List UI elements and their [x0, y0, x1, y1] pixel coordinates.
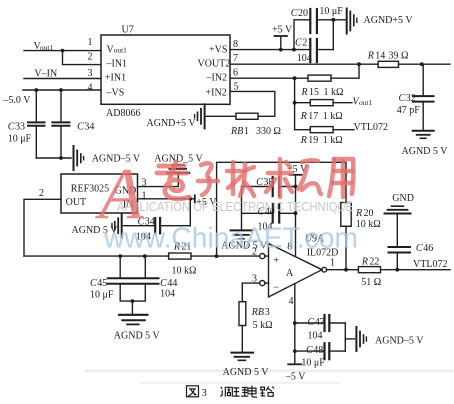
svg-text:GND: GND — [392, 193, 414, 204]
wire C20 branch — [294, 20, 310, 50]
ground AGND+5V top right — [347, 9, 357, 34]
svg-text:19: 19 — [308, 135, 318, 146]
red char 5 — [266, 159, 292, 197]
capacitor C20 — [310, 9, 345, 33]
wire R15 to VOUT2 — [331, 64, 359, 78]
wire R19 left — [295, 129, 311, 131]
watermark red calligraphy — [95, 153, 353, 234]
svg-text:AD8066: AD8066 — [106, 108, 140, 119]
ground AGND 5V U9A — [231, 230, 253, 238]
svg-text:R: R — [301, 87, 308, 98]
svg-text:47: 47 — [315, 317, 325, 328]
svg-text:4: 4 — [289, 296, 294, 307]
svg-text:AGND_5 V: AGND_5 V — [154, 153, 203, 164]
wire -5.0V to pin4 — [23, 89, 101, 91]
svg-text:+VS: +VS — [209, 45, 227, 56]
red char 3 — [198, 163, 218, 195]
svg-text:C: C — [399, 93, 406, 104]
node C45 tap — [118, 254, 122, 258]
wire pin8 supply — [295, 187, 297, 256]
svg-text:RB: RB — [251, 307, 264, 318]
svg-text:1 kΩ: 1 kΩ — [324, 87, 344, 98]
svg-text:R: R — [361, 256, 368, 267]
svg-text:10 μF: 10 μF — [301, 357, 325, 368]
red char 1 — [95, 153, 144, 234]
svg-text:32: 32 — [406, 93, 416, 104]
ground AGND_5V above — [167, 165, 189, 173]
svg-text:44: 44 — [167, 278, 177, 289]
resistor R17 — [310, 100, 333, 106]
svg-text:5 kΩ: 5 kΩ — [253, 320, 273, 331]
svg-text:–IN1: –IN1 — [106, 59, 128, 70]
capacitor C38 — [242, 177, 296, 196]
svg-text:51 Ω: 51 Ω — [361, 277, 381, 288]
svg-text:AGND+5 V: AGND+5 V — [147, 118, 197, 129]
node C42 — [294, 211, 298, 215]
node R20 join — [344, 268, 348, 272]
node C38 — [294, 185, 298, 189]
node C48 — [293, 349, 297, 353]
wire RB3 to ground — [241, 326, 243, 353]
node R17 — [293, 101, 297, 105]
caption char li — [233, 387, 248, 396]
ground AGND 5V below RB3 — [231, 353, 253, 361]
wire pin6 -IN2 — [230, 77, 308, 79]
capacitor C33 — [28, 90, 45, 158]
svg-text:AGND 5 V: AGND 5 V — [223, 367, 270, 378]
red char 7 — [329, 159, 353, 197]
resistor R22 — [358, 267, 380, 273]
capacitor C47 — [295, 315, 346, 331]
capacitor C42 — [242, 204, 296, 223]
caption char tu — [187, 386, 199, 397]
svg-text:8: 8 — [233, 39, 238, 50]
svg-text:104: 104 — [160, 288, 175, 299]
resistor R14 — [378, 61, 398, 67]
svg-text:3: 3 — [202, 388, 207, 399]
svg-text:330 Ω: 330 Ω — [256, 126, 281, 137]
svg-text:–IN2: –IN2 — [206, 73, 228, 84]
caption char diao — [220, 387, 232, 397]
svg-text:AGND+5 V: AGND+5 V — [364, 15, 414, 26]
svg-text:OUT: OUT — [66, 197, 87, 208]
svg-text:VTL072: VTL072 — [413, 259, 447, 270]
+5V tap U9A — [290, 175, 302, 187]
svg-text:−: − — [273, 283, 279, 294]
svg-text:Vout1: Vout1 — [107, 45, 128, 56]
wire pin3 to RB3 — [242, 283, 259, 302]
svg-text:C: C — [306, 345, 313, 356]
svg-text:15: 15 — [309, 87, 319, 98]
wire Vout1 to pin1 — [24, 50, 101, 52]
wire pin2 loop — [63, 51, 102, 65]
watermark grey text — [117, 200, 353, 214]
svg-text:U7: U7 — [122, 25, 134, 36]
svg-text:22: 22 — [369, 256, 379, 267]
caption figure number — [202, 388, 207, 399]
op-amp U7 box — [101, 35, 230, 104]
wire branch to R17 R19 — [294, 78, 296, 130]
watermark blue www.ChinaAET.com — [103, 223, 358, 255]
svg-text:3: 3 — [88, 68, 93, 79]
node C44 tap — [143, 254, 147, 258]
wire OUT long to R21 — [24, 255, 169, 257]
node C46 tap — [395, 268, 399, 272]
op-amp U9A triangle — [269, 244, 323, 298]
svg-text:1 kΩ: 1 kΩ — [323, 111, 343, 122]
svg-text:10 kΩ: 10 kΩ — [172, 265, 197, 276]
svg-text:10 μF: 10 μF — [319, 6, 343, 17]
capacitor C46 — [389, 214, 411, 270]
faint scan band — [85, 370, 454, 373]
svg-text:V–IN: V–IN — [34, 69, 57, 80]
ground AGND-5V left — [74, 146, 84, 170]
svg-text:2: 2 — [39, 188, 44, 199]
svg-text:6: 6 — [233, 67, 238, 78]
ground AGND-5V right — [356, 327, 366, 351]
wire output — [327, 269, 359, 271]
node C32 tap — [420, 62, 424, 66]
svg-text:R: R — [367, 51, 374, 62]
wire R17 left — [295, 102, 311, 104]
resistor RB3 — [239, 302, 246, 326]
node — [59, 156, 63, 160]
svg-text:39 Ω: 39 Ω — [389, 51, 409, 62]
+5V supply tap top — [275, 36, 288, 50]
node — [131, 299, 135, 303]
svg-text:104: 104 — [308, 331, 323, 342]
svg-text:10 kΩ: 10 kΩ — [356, 219, 381, 230]
wire R17 to Vout1 — [333, 102, 352, 104]
capacitor C44 — [132, 256, 158, 301]
svg-text:C: C — [8, 121, 15, 132]
red char 6 — [298, 160, 321, 194]
svg-text:out1: out1 — [359, 98, 372, 107]
svg-text:+IN1: +IN1 — [105, 73, 126, 84]
svg-text:RB: RB — [230, 126, 243, 137]
svg-text:17: 17 — [308, 111, 318, 122]
-5V bar — [288, 363, 301, 365]
capacitor C32 — [413, 64, 434, 130]
node — [279, 48, 283, 52]
capacitor C34 — [52, 90, 69, 158]
red char 2 — [157, 162, 189, 199]
svg-text:5: 5 — [234, 82, 239, 93]
svg-text:2: 2 — [88, 52, 93, 63]
svg-text:20: 20 — [298, 8, 308, 19]
svg-text:out1: out1 — [40, 43, 53, 52]
svg-text:4: 4 — [88, 82, 93, 93]
wire pin7 VOUT2 — [230, 63, 378, 65]
ground AGND 5V REF — [112, 214, 122, 238]
ground GND top — [385, 206, 411, 213]
svg-text:1: 1 — [330, 257, 335, 268]
svg-text:C: C — [77, 121, 84, 132]
wire to AGND-5V — [36, 157, 71, 159]
caption char lu — [260, 387, 274, 397]
svg-text:C: C — [90, 278, 97, 289]
svg-text:1: 1 — [88, 37, 93, 48]
wire pin8 +VS — [230, 49, 310, 51]
svg-text:33: 33 — [15, 121, 25, 132]
node R15 feedback — [357, 62, 361, 66]
pin2 terminal — [260, 254, 269, 259]
wire R20 down — [345, 226, 347, 269]
resistor RB1 — [236, 113, 258, 119]
svg-text:–5 V: –5 V — [285, 371, 306, 382]
svg-text:A: A — [286, 268, 294, 279]
node junction pin1/pin2 — [61, 49, 65, 53]
wire pin5 +IN2 — [230, 91, 275, 116]
svg-text:C: C — [308, 317, 315, 328]
svg-text:20: 20 — [364, 208, 374, 219]
svg-text:3: 3 — [265, 307, 270, 318]
wire IN pin1 — [138, 198, 191, 200]
svg-text:R: R — [300, 135, 307, 146]
svg-text:C: C — [291, 8, 298, 19]
svg-text:+5 V: +5 V — [272, 25, 293, 36]
svg-text:C: C — [295, 38, 302, 49]
svg-text:10 μF: 10 μF — [8, 134, 32, 145]
svg-text:AGND–5 V: AGND–5 V — [375, 335, 424, 346]
svg-text:R: R — [300, 111, 307, 122]
wire caps to AGND-5V — [345, 323, 354, 351]
svg-text:VTL072: VTL072 — [354, 122, 388, 133]
resistor R21 — [169, 253, 191, 259]
svg-text:AGND 5 V: AGND 5 V — [114, 331, 161, 342]
wire IN decoupling — [161, 199, 191, 226]
red char 4 — [227, 162, 254, 196]
wire R19 to VTL072 — [333, 129, 354, 131]
wire R14 out — [399, 63, 451, 65]
ground AGND 5V below C45 — [119, 301, 147, 324]
capacitor C34 REF — [124, 218, 161, 233]
node feedback tap — [215, 254, 219, 258]
wire OUT pin2 — [24, 199, 61, 256]
wire RB1 to ground — [206, 115, 236, 117]
caption 图 3 调理电路 — [187, 386, 275, 398]
node C20 branch — [292, 48, 296, 52]
svg-text:AGND 5 V: AGND 5 V — [402, 146, 449, 157]
svg-text:+IN2: +IN2 — [206, 87, 227, 98]
output terminal pin1 — [322, 267, 327, 272]
node C33 tap — [34, 88, 38, 92]
svg-text:104: 104 — [297, 53, 312, 64]
+5V tap REF — [190, 195, 195, 202]
svg-text:–VS: –VS — [106, 87, 125, 98]
svg-text:VOUT2: VOUT2 — [198, 59, 231, 70]
wire GND pin3 — [138, 174, 179, 187]
resistor R15 — [308, 75, 331, 81]
capacitor C21 — [310, 39, 333, 62]
svg-text:APPLICATION OF ELECTRONIC TECH: APPLICATION OF ELECTRONIC TECHNIQUE — [117, 200, 353, 214]
wire pin4 -5V — [294, 284, 296, 365]
svg-text:7: 7 — [233, 53, 238, 64]
caption char dian — [248, 386, 257, 398]
svg-text:+: + — [273, 256, 279, 267]
svg-text:46: 46 — [423, 243, 433, 254]
capacitor C45 — [108, 256, 133, 301]
pin3 terminal — [260, 281, 269, 286]
svg-text:10 μF: 10 μF — [90, 290, 114, 301]
node pin6 branch — [293, 76, 297, 80]
svg-text:48: 48 — [313, 345, 323, 356]
svg-text:21: 21 — [302, 38, 312, 49]
node C47 — [293, 321, 297, 325]
node — [331, 18, 335, 22]
svg-text:45: 45 — [97, 278, 107, 289]
wire R21 to pin2 — [191, 255, 259, 257]
svg-text:14: 14 — [375, 51, 385, 62]
node C34 tap — [59, 88, 63, 92]
svg-text:–5.0 V: –5.0 V — [2, 95, 31, 106]
ground AGND 5V below C32 — [413, 131, 434, 139]
wire feedback up and right — [217, 162, 346, 256]
resistor R20 — [341, 203, 351, 227]
wire R22 to VTL072 — [381, 269, 451, 271]
capacitor C48 — [295, 343, 346, 359]
REF3025 box U8 — [61, 174, 138, 213]
svg-text:A: A — [95, 153, 144, 234]
ground AGND+5V below U7 — [195, 104, 205, 128]
svg-text:1: 1 — [244, 126, 249, 137]
resistor R19 — [310, 127, 333, 133]
svg-text:1 kΩ: 1 kΩ — [323, 135, 343, 146]
svg-text:C: C — [256, 177, 263, 188]
wire caps left — [241, 187, 243, 231]
svg-text:3: 3 — [252, 273, 257, 284]
svg-text:47 pF: 47 pF — [397, 105, 421, 116]
wire V-IN to pin3 — [24, 78, 101, 80]
svg-text:34: 34 — [84, 121, 94, 132]
svg-text:C: C — [160, 278, 167, 289]
svg-text:R: R — [355, 208, 362, 219]
svg-text:C: C — [416, 243, 423, 254]
node IN junction — [188, 197, 192, 201]
wire C21 up — [332, 20, 334, 50]
